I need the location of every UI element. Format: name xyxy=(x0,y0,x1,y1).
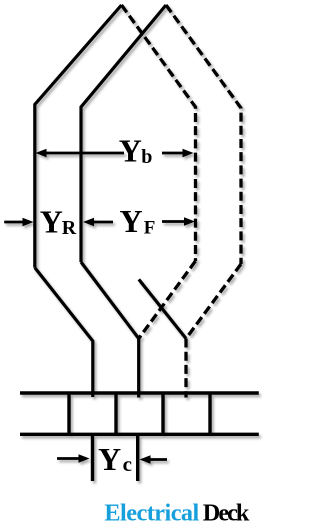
svg-text:Y: Y xyxy=(98,441,121,477)
arrow Yc right (points left at Yc right tick) xyxy=(150,458,167,461)
svg-text:F: F xyxy=(144,217,156,238)
Yc span left tick xyxy=(91,434,94,481)
Yc span right tick xyxy=(136,434,139,481)
commutator segment divider 3 xyxy=(161,393,164,434)
svg-text:b: b xyxy=(141,146,152,168)
wire: coil 1 end connection to commutator lead A xyxy=(35,268,93,397)
wire: commutator lead C (dashed) xyxy=(184,339,187,398)
arrow Yb left (points left at conductor 1) xyxy=(44,152,124,155)
wire: coil 2 bottom side end connection to junction C (dashed) xyxy=(186,264,241,339)
wire: start of next coil (solid partial) joining junction C xyxy=(139,279,186,338)
commutator segment divider 2 xyxy=(114,393,117,434)
coil 2 bottom side (dashed): back flank from apex and right slot conductor xyxy=(166,5,241,264)
commutator top edge xyxy=(20,391,259,394)
svg-text:R: R xyxy=(62,217,77,239)
svg-text:c: c xyxy=(123,452,132,476)
svg-text:Y: Y xyxy=(40,204,63,240)
coil 1 bottom side (dashed): back flank from apex and right slot conductor xyxy=(122,5,196,261)
commutator segment divider 1 xyxy=(67,393,70,434)
wire: coil 2 end connection down to commutator lead B xyxy=(81,262,139,398)
arrow YF right (points right at dashed conductor) xyxy=(162,220,185,223)
wire: coil 1 bottom side end connection to junction B (dashed) xyxy=(139,261,196,339)
coil 1 top side (solid): left slot conductor and front flank to apex xyxy=(35,5,122,268)
commutator segment divider 4 xyxy=(208,393,211,434)
svg-text:Deck: Deck xyxy=(203,500,250,527)
svg-text:Y: Y xyxy=(119,132,142,168)
svg-text:Electrical: Electrical xyxy=(104,500,199,527)
arrow Yc left (points right at Yc left tick) xyxy=(57,457,79,460)
commutator bottom edge xyxy=(20,433,259,436)
arrow Yb right (points right at dashed conductor) xyxy=(162,152,184,155)
coil 2 top side (solid): second slot conductor and front flank to apex xyxy=(81,5,166,262)
svg-text:Y: Y xyxy=(120,203,143,239)
arrow YR outer-left (points right at conductor 1) xyxy=(4,221,24,224)
arrow YF left (points left at conductor 2) xyxy=(92,221,113,224)
